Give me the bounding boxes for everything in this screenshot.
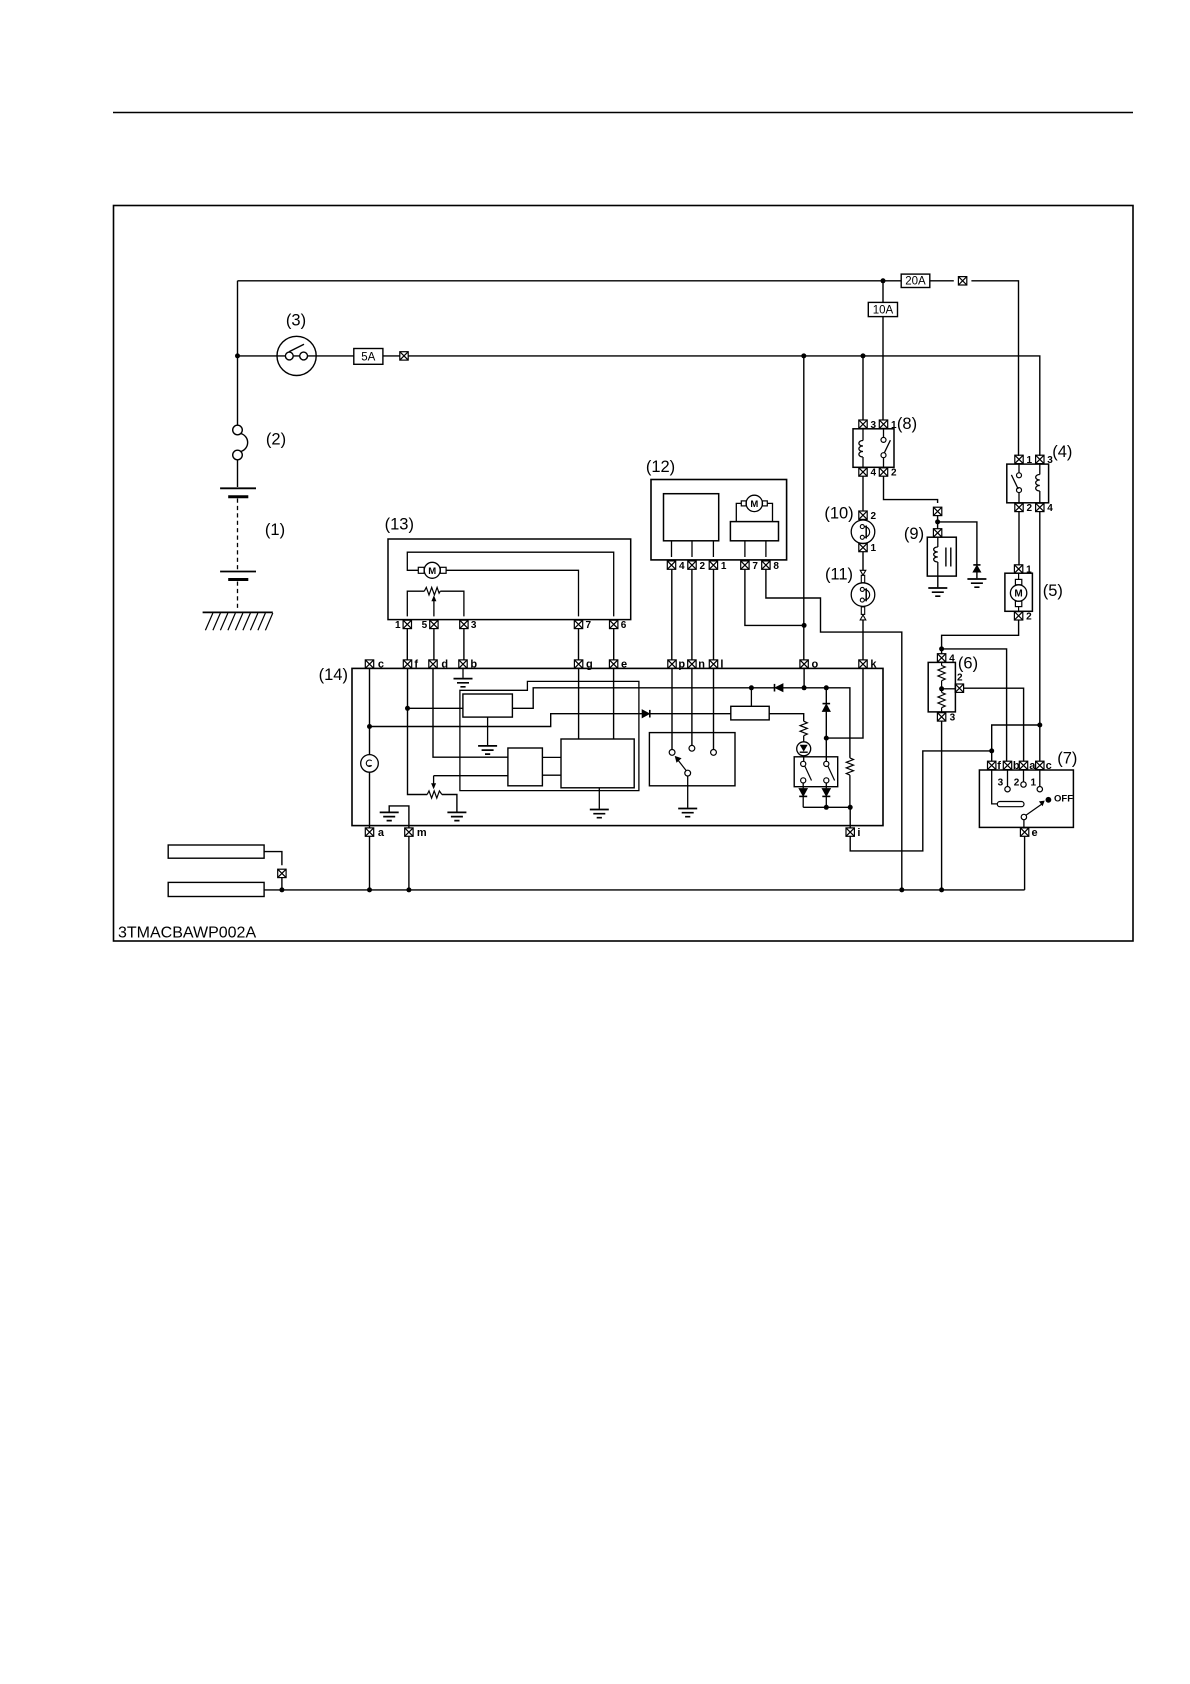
(14) pin m [405, 828, 413, 836]
svg-text:20A: 20A [905, 276, 926, 288]
svg-text:4: 4 [949, 654, 955, 665]
svg-text:1: 1 [395, 620, 401, 631]
junction top rail / 10A branch [881, 278, 886, 283]
wire (12) pin 1 to pin l [713, 569, 715, 660]
svg-text:2: 2 [700, 561, 706, 572]
relay 8 pin 2 [879, 468, 887, 476]
connector on 5A rail [400, 352, 408, 360]
potentiometer in (14) [427, 791, 442, 798]
wire (13) pin 5 to pin d [433, 629, 435, 661]
svg-text:(7): (7) [1057, 750, 1077, 768]
(7) pin e [1023, 820, 1025, 828]
wire 10A branch [882, 281, 884, 421]
motor in (13) [424, 562, 440, 578]
box3 ground stem [598, 788, 600, 809]
(14) inner module outline [460, 681, 639, 790]
svg-text:7: 7 [586, 620, 592, 631]
LED resistor [800, 721, 807, 736]
wire relay coil box to LED resistor [769, 714, 804, 722]
svg-text:e: e [621, 659, 627, 671]
svg-text:(3): (3) [286, 311, 306, 329]
(13) pin 6 [610, 620, 618, 628]
control unit (14) [352, 668, 883, 825]
svg-text:2: 2 [1027, 503, 1033, 514]
svg-text:1: 1 [891, 420, 897, 431]
wire (12) pin 7 to pin o column [745, 569, 804, 625]
svg-text:8: 8 [773, 561, 779, 572]
svg-text:M: M [428, 566, 436, 577]
(7) pin b [1003, 761, 1011, 769]
(7) pin f to heater bar [992, 770, 998, 804]
dual switch box in (14) [794, 757, 838, 787]
relay 8 pin 3 [859, 420, 867, 428]
svg-text:(5): (5) [1043, 582, 1063, 600]
bulb socket lower [861, 607, 864, 615]
wire pin g to box3 [578, 668, 580, 739]
junction battery / 5A rail [235, 353, 240, 358]
svg-text:c: c [1046, 760, 1052, 772]
svg-text:a: a [378, 827, 385, 839]
svg-text:f: f [997, 760, 1001, 772]
wire (6) pin 2 to switch 7 pin a [964, 688, 1024, 761]
svg-text:1: 1 [871, 543, 877, 554]
svg-text:2: 2 [957, 673, 963, 684]
junction right diode / pin i wire [824, 805, 829, 810]
(12) pin 8 [762, 561, 770, 569]
LED indicator [797, 742, 811, 756]
wire coil to ground [937, 576, 939, 587]
wire (13) motor left brush loop to pin 6 [407, 552, 613, 616]
svg-text:p: p [678, 659, 685, 671]
svg-text:(13): (13) [385, 516, 414, 534]
svg-text:b: b [470, 659, 477, 671]
connector igniter pin [933, 529, 941, 537]
svg-text:g: g [586, 659, 593, 671]
junction (6) centre tap [939, 686, 944, 691]
(7) lever and OFF [1021, 814, 1026, 819]
relay 8 coil [859, 429, 863, 468]
svg-text:6: 6 [621, 620, 627, 631]
wire (13) pin 6 to pin e [613, 629, 615, 661]
wire diodes to pin i [803, 807, 850, 828]
motor (5) [1005, 573, 1033, 611]
junction (6) pin 3 / bottom rail [939, 887, 944, 892]
diode to ground [973, 564, 980, 566]
junction sender / bottom rail [279, 887, 284, 892]
svg-text:e: e [1032, 827, 1038, 839]
svg-text:(8): (8) [897, 415, 917, 433]
(14) pin g [574, 660, 582, 668]
wire wiper to box2 [434, 775, 508, 777]
(14) pin f [403, 660, 411, 668]
wire pin a to bottom rail [369, 836, 371, 890]
svg-text:1: 1 [1027, 455, 1033, 466]
svg-text:l: l [720, 659, 723, 671]
wire (12) pin 8 to bottom rail [766, 569, 902, 890]
(14) pin c [365, 660, 373, 668]
svg-text:3: 3 [950, 713, 956, 724]
relay (8) [853, 429, 894, 468]
wire (12) pin 4 to pin p [671, 569, 673, 660]
wire relay 4 pin 4 to switch 7 pin c [1039, 512, 1041, 762]
motor 5 pin 2 [1014, 612, 1022, 620]
svg-text:OFF: OFF [1054, 794, 1073, 805]
wire pin i loop [850, 751, 992, 851]
(14) pin a [365, 828, 373, 836]
box2 in (14) [508, 748, 543, 786]
wire (13) pin 1 to pin f [406, 629, 408, 661]
wire diode branch [938, 522, 977, 578]
connector igniter feed [933, 507, 941, 515]
wire jumper to pin f [992, 725, 1040, 761]
(12) pin 7 [741, 561, 749, 569]
svg-text:5: 5 [422, 620, 428, 631]
ignition coil (9) [927, 537, 956, 576]
junction relay coil line / coil stem [749, 685, 754, 690]
wire sensor to pin a [369, 772, 371, 828]
(12) pin 2 [688, 561, 696, 569]
svg-text:1: 1 [721, 561, 727, 572]
fuse 20A [901, 274, 930, 287]
wire pin k into (14) [826, 668, 863, 761]
box3 in (14) [561, 739, 634, 788]
svg-text:10A: 10A [873, 304, 894, 316]
junction igniter / diode branch [935, 519, 940, 524]
ground diode [967, 579, 986, 587]
junction resistor / pin i wire [848, 805, 853, 810]
relay 4 pin 1 [1015, 455, 1023, 463]
relay 4 pin 2 [1015, 503, 1023, 511]
relay coil box in (14) [731, 706, 769, 720]
relay (4) [1007, 464, 1049, 503]
(14) pin k [859, 660, 867, 668]
svg-text:7: 7 [752, 561, 758, 572]
wire relay 4 pin 2 to motor 5 [1018, 512, 1020, 566]
svg-text:3: 3 [471, 620, 477, 631]
wire (13) motor right brush to pin 7 [446, 570, 578, 616]
svg-text:(2): (2) [266, 430, 286, 448]
diagram frame [114, 206, 1134, 942]
pin f internal net [408, 668, 457, 811]
(6) resistor lower [938, 689, 945, 712]
junction pin f column / pin i loop [989, 748, 994, 753]
wire pin n to contact [691, 668, 693, 745]
box1 ground stem [487, 717, 489, 745]
wire pin e to box3 [613, 668, 615, 739]
svg-text:2: 2 [891, 468, 897, 479]
svg-text:d: d [441, 659, 448, 671]
svg-text:(1): (1) [265, 521, 285, 539]
left diode down [802, 783, 804, 788]
svg-text:2: 2 [1026, 612, 1032, 623]
relay 8 contact [884, 429, 891, 468]
pin m ground net [389, 806, 409, 828]
wire pin e to bottom rail [1024, 836, 1026, 890]
wire (13) pin 7 to pin g [578, 629, 580, 661]
svg-text:(4): (4) [1052, 443, 1072, 461]
switch box D in (14) [649, 733, 735, 786]
junction pin f column [405, 706, 410, 711]
(14) pin n [688, 660, 696, 668]
wire fuse to battery [237, 460, 239, 487]
resistor unit (6) [928, 662, 955, 712]
(14) ground below pin b [462, 668, 464, 678]
junction pin a / bottom rail [367, 887, 372, 892]
relay 8 pin 1 [879, 420, 887, 428]
wire (13) pin 3 to pin b [463, 629, 465, 661]
feedback resistor in (14) [846, 758, 853, 775]
junction relay coil line / pin o column [802, 685, 807, 690]
(6) pin 3 [937, 713, 945, 721]
selector ground stem [687, 776, 689, 808]
battery (1) [220, 487, 256, 489]
motor 5 symbol [1018, 573, 1020, 611]
bottom rail [264, 889, 1025, 891]
wire battery positive riser [237, 281, 239, 425]
(14) pin l [709, 660, 717, 668]
motor in (12) [746, 495, 762, 511]
wire box1 to relay coil line [512, 688, 850, 758]
svg-text:4: 4 [679, 561, 685, 572]
svg-text:(10): (10) [824, 505, 853, 523]
wire pin i to loop (external) [849, 806, 851, 808]
potentiometer in (13) [424, 587, 440, 595]
relay 4 coil [1036, 464, 1040, 503]
(13) pot wiper arrow [433, 599, 435, 617]
svg-text:3: 3 [871, 420, 877, 431]
svg-text:1: 1 [1026, 565, 1032, 576]
svg-text:n: n [698, 659, 705, 671]
wire lamp 11 to pin k [862, 620, 864, 660]
svg-text:2: 2 [871, 511, 877, 522]
fuse 5A [354, 349, 383, 365]
(7) heater bar [997, 802, 1024, 807]
svg-text:c: c [378, 659, 384, 671]
motor 5 pin 1 [1014, 565, 1022, 573]
svg-text:3: 3 [998, 778, 1004, 789]
svg-text:o: o [812, 659, 819, 671]
junction pin c column [367, 724, 372, 729]
wires motor to gearbox in (12) [736, 503, 772, 521]
(6) pin 2 [955, 684, 963, 692]
actuator unit (12) [651, 480, 787, 560]
svg-text:f: f [414, 659, 418, 671]
diode vertical (up pointing) [825, 688, 827, 738]
junction relay coil line / diode branch [824, 685, 829, 690]
combination switch (7) [979, 770, 1073, 827]
svg-text:(12): (12) [646, 458, 675, 476]
relay 4 contact [1011, 464, 1019, 503]
wire pin p to contact [671, 668, 673, 749]
pin c internal net [370, 668, 731, 754]
wire pin o into (14) [803, 668, 805, 687]
svg-text:4: 4 [1047, 503, 1053, 514]
wire (12) pin 2 to pin n [691, 569, 693, 660]
top rule [113, 112, 1133, 114]
svg-text:(14): (14) [319, 666, 348, 684]
right contact set [824, 761, 829, 766]
(13) pin 1 [403, 620, 411, 628]
stem to relay coil box [750, 688, 752, 707]
(13) pin 5 [430, 620, 438, 628]
svg-text:3: 3 [1047, 455, 1053, 466]
(6) resistor upper [938, 662, 945, 688]
switch (3) [277, 336, 316, 375]
(7) pin f [988, 761, 996, 769]
(14) pin b [459, 660, 467, 668]
svg-text:(9): (9) [904, 525, 924, 543]
sensor circle in (14) [361, 755, 379, 773]
wire relay 8 pin 2 to igniter [884, 476, 938, 503]
(14) pin e [609, 660, 617, 668]
svg-text:M: M [1014, 589, 1022, 600]
wire 5A rail to relay 8 pin 3 [862, 356, 864, 421]
junction 5A rail / pin o column [801, 353, 806, 358]
control block in (12) [664, 494, 719, 541]
fuse 10A [868, 302, 897, 316]
sender rect upper [168, 845, 264, 858]
selector lever [685, 770, 691, 776]
junction pin m / bottom rail [406, 887, 411, 892]
wire pin m to bottom rail [408, 836, 410, 890]
links box2 to box3 [542, 757, 561, 775]
lamp (10) [859, 511, 867, 519]
sender rect lower [168, 882, 264, 896]
wire resistor 6 pin4 branch to switch 7 pin b [942, 649, 1007, 761]
svg-text:(6): (6) [958, 654, 978, 672]
wire (6) pin 3 to bottom rail [941, 721, 943, 890]
wire pin l to contact [713, 668, 715, 749]
fuse (2) fusible link [233, 425, 243, 435]
relay 8 pin 4 [859, 468, 867, 476]
wire top supply rail [238, 281, 1019, 456]
pot wiper arrow in (14) [433, 776, 435, 786]
(14) pin p [668, 660, 676, 668]
wire 5A rail to pin o [803, 356, 805, 660]
(14) pin o [800, 660, 808, 668]
connector on 20A rail [958, 277, 966, 285]
right diode down [825, 783, 827, 788]
bulb socket upper [860, 570, 866, 575]
wire 5A rail [238, 356, 1040, 456]
junction motor5 return / resistor 6 pin 4 [939, 646, 944, 651]
wire relay 8 pin 4 to lamp 10 [862, 476, 864, 511]
(7) pin c [1036, 761, 1044, 769]
wire pin f junction to box1 [408, 707, 463, 709]
svg-text:i: i [857, 827, 860, 839]
junction (12) pin 7 / pin o column [802, 623, 807, 628]
(13) pin 3 [460, 620, 468, 628]
(12) pin 4 [667, 561, 675, 569]
svg-text:4: 4 [871, 468, 877, 479]
ground pot right [447, 812, 466, 820]
svg-text:2: 2 [1014, 778, 1020, 789]
svg-text:5A: 5A [361, 351, 375, 363]
(14) pin d [429, 660, 437, 668]
ground (9) [928, 588, 947, 596]
wire sender upper to connector [264, 852, 282, 866]
(7) pin a [1019, 761, 1027, 769]
diode series (right pointing) [642, 710, 649, 718]
chassis ground hatch [203, 611, 273, 613]
wire lamp 10 to socket [862, 552, 864, 571]
relay 4 pin 4 [1036, 503, 1044, 511]
junction pin c column / pin f jumper [1037, 723, 1042, 728]
junction 5A rail / relay 8 pin 3 [861, 353, 866, 358]
(14) pin i [846, 828, 854, 836]
(12) pin 1 [709, 561, 717, 569]
box1 in (14) [463, 694, 513, 717]
svg-text:1: 1 [1031, 778, 1037, 789]
svg-text:(11): (11) [825, 566, 853, 584]
(13) pin 7 [574, 620, 582, 628]
svg-text:M: M [750, 499, 758, 510]
stems (12) pins [672, 541, 766, 557]
svg-text:3TMACBAWP002A: 3TMACBAWP002A [118, 925, 256, 942]
(7) contact stems [1008, 770, 1040, 787]
wire motor 5 pin 2 to resistor 6 [942, 620, 1019, 654]
wire tap to (6) pin 2 [942, 688, 956, 690]
wire connector to bottom rail [281, 878, 283, 890]
svg-text:k: k [870, 659, 877, 671]
svg-text:m: m [417, 827, 427, 839]
wire LED to switch box [803, 756, 805, 762]
junction diode / pin k branch [824, 736, 829, 741]
pin d internal net [433, 668, 508, 757]
gearbox block in (12) [730, 522, 778, 541]
relay 4 pin 3 [1036, 455, 1044, 463]
left contact set [801, 761, 806, 766]
wiper motor unit (13) [388, 539, 631, 620]
connector sender [278, 869, 286, 877]
(6) pin 4 [937, 654, 945, 662]
diode shunt (left pointing) [775, 684, 783, 692]
junction (12) pin 8 path / bottom rail [899, 887, 904, 892]
